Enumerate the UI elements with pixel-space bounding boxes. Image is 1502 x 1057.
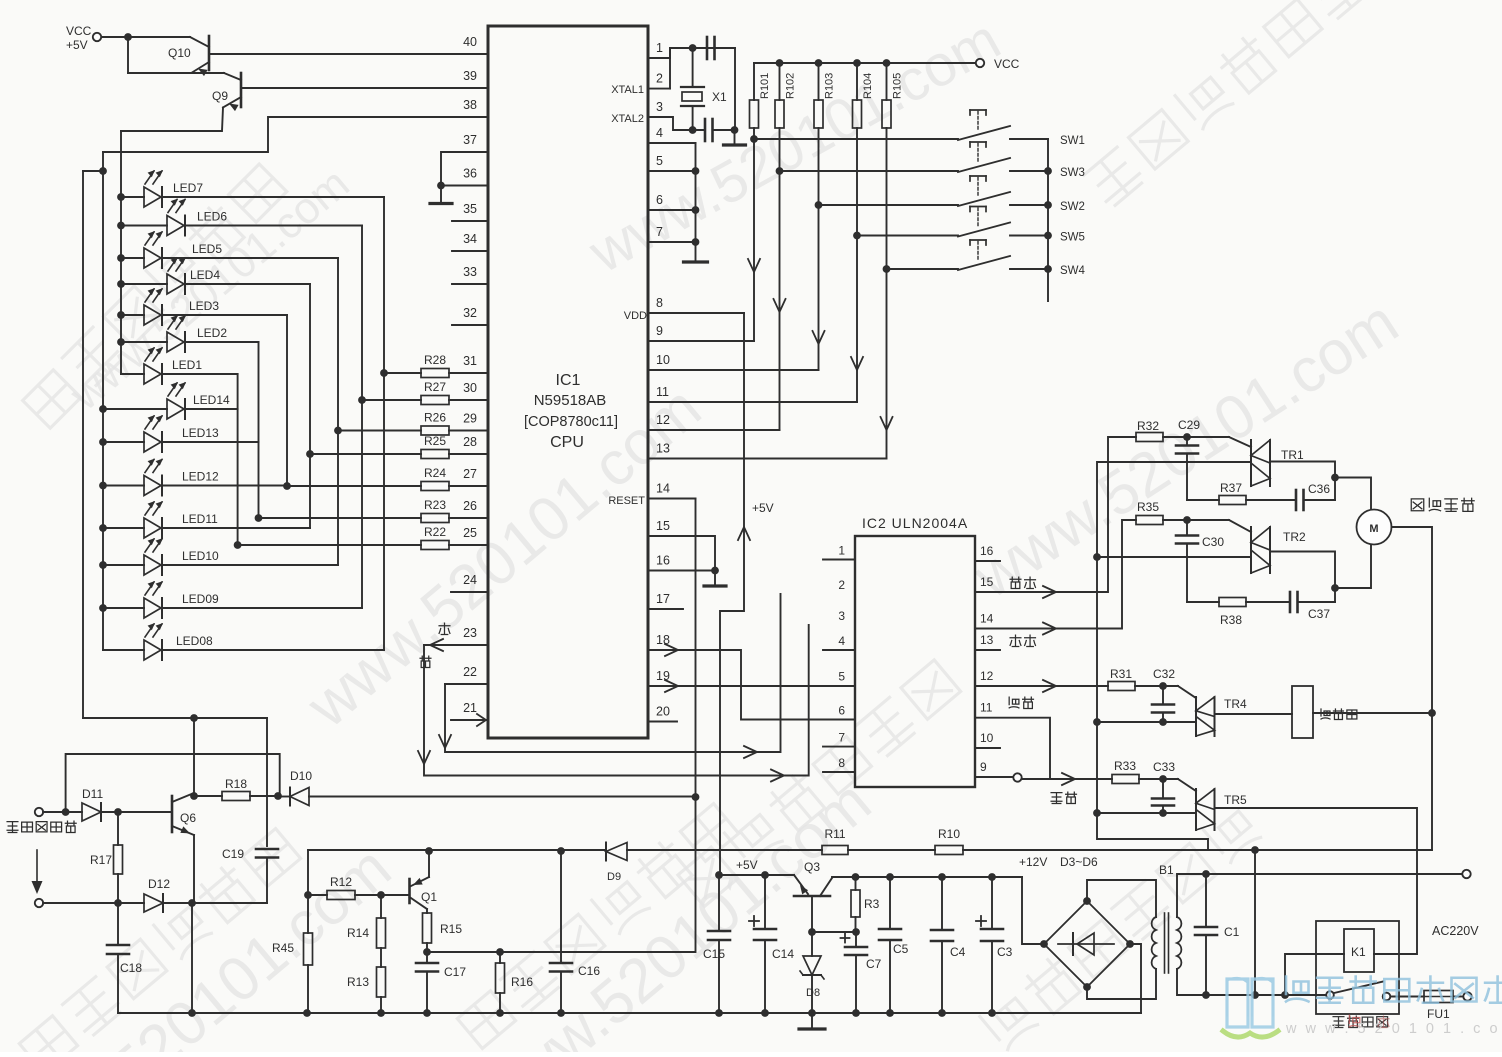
- svg-text:LED14: LED14: [193, 393, 230, 407]
- junction bus TR4 line: [1093, 718, 1101, 726]
- svg-text:C1: C1: [1224, 925, 1240, 939]
- wire SW1 row: [754, 138, 958, 140]
- svg-text:12: 12: [980, 669, 994, 683]
- junction ground bus x500: [496, 1009, 504, 1017]
- svg-text:38: 38: [463, 98, 477, 112]
- terminal AC top: [1462, 870, 1470, 878]
- junction C32 bottom: [1159, 718, 1167, 726]
- resistor R28: [421, 353, 449, 378]
- resistor R31: [1108, 667, 1135, 691]
- IC2 pin 8 number: [838, 756, 845, 770]
- wire R25 row: [310, 453, 488, 455]
- svg-text:Q9: Q9: [212, 89, 228, 103]
- junction crystal bottom: [689, 126, 697, 134]
- wire LED3 row: [121, 314, 287, 316]
- svg-text:24: 24: [463, 573, 477, 587]
- diode D10: [278, 769, 312, 806]
- wire LED10 row: [103, 564, 338, 566]
- capacitor C15: [703, 875, 730, 1013]
- label 反 reverse: [420, 656, 431, 667]
- pin name XTAL2: [611, 113, 644, 125]
- wire R22 row: [238, 544, 488, 546]
- label 电源 power: [1051, 792, 1076, 803]
- pin 24 number: [463, 573, 477, 587]
- junction D11 left: [62, 808, 70, 816]
- junction R16 top: [496, 948, 504, 956]
- svg-text:22: 22: [463, 665, 477, 679]
- triac TR5: [1178, 779, 1247, 830]
- wire Q6 emitter to ground bus: [191, 903, 193, 1013]
- resistor R13: [347, 967, 386, 1013]
- junction switch bus SW4: [1044, 265, 1052, 273]
- wire R23 row: [259, 517, 489, 519]
- svg-text:LED08: LED08: [176, 634, 213, 648]
- wire LED13 row: [103, 441, 259, 443]
- pin 33 number: [463, 265, 477, 279]
- label D3~D6: [1060, 855, 1098, 869]
- svg-text:TR2: TR2: [1283, 530, 1306, 544]
- svg-text:3: 3: [838, 609, 845, 623]
- IC2 pin 3 number: [838, 609, 845, 623]
- pin 11 number: [656, 385, 669, 399]
- svg-text:C14: C14: [772, 947, 794, 961]
- pin 23 number: [463, 626, 477, 640]
- svg-text:4: 4: [838, 634, 845, 648]
- svg-text:Q3: Q3: [804, 860, 820, 874]
- svg-text:R45: R45: [272, 941, 294, 955]
- junction ground bus x992: [988, 1009, 996, 1017]
- svg-text:29: 29: [463, 412, 477, 426]
- junction C1 bottom: [1202, 991, 1210, 999]
- wire motor to right drop: [1392, 527, 1433, 713]
- pin 24 stub wire: [451, 591, 488, 593]
- wire fuse to terminal: [1453, 996, 1463, 998]
- junction rail Q1: [425, 847, 433, 855]
- pin 30 number: [463, 381, 477, 395]
- junction VCC node: [124, 33, 132, 41]
- IC2 pin 16 stub: [975, 560, 1000, 562]
- wire VCC node down to emitter rail: [127, 37, 129, 73]
- wire LED4 row: [121, 283, 310, 285]
- wire pin 14 RESET net: [648, 499, 696, 798]
- svg-text:C3: C3: [997, 945, 1013, 959]
- diode D9: [606, 843, 627, 884]
- label 电源开关: [1333, 1016, 1388, 1027]
- pin 32 stub wire: [452, 324, 488, 326]
- wire R33 to C33 node: [1139, 778, 1178, 780]
- svg-text:M: M: [1369, 523, 1378, 535]
- svg-text:3: 3: [656, 100, 663, 114]
- svg-text:LED7: LED7: [173, 181, 203, 195]
- wire LED3/LED12 cathode vertical: [286, 315, 288, 486]
- junction base node: [808, 928, 816, 936]
- wire Q6 emitter down: [193, 835, 195, 903]
- junction bus TR5 line: [1093, 809, 1101, 817]
- junction valve right node: [1428, 709, 1436, 717]
- terminal VCC: [93, 33, 101, 41]
- svg-text:R16: R16: [511, 975, 533, 989]
- svg-text:11: 11: [656, 385, 669, 399]
- red stamp accents: [1349, 1015, 1389, 1027]
- svg-text:R103: R103: [824, 73, 836, 99]
- pin 21 number: [463, 701, 477, 715]
- junction ground bus x765: [761, 1009, 769, 1017]
- wire TR4 to inlet valve: [1215, 713, 1293, 715]
- svg-text:C36: C36: [1308, 482, 1330, 496]
- wire bridge right to ground bus: [1130, 944, 1141, 1013]
- svg-text:R28: R28: [424, 353, 446, 367]
- resistor R102: [775, 63, 797, 171]
- IC2 pin 15 number: [980, 575, 994, 589]
- wire bridge AC bottom to transformer: [1087, 969, 1156, 999]
- svg-text:FU1: FU1: [1427, 1007, 1450, 1021]
- junction R23 net: [255, 514, 263, 522]
- capacitor C16: [550, 851, 600, 1013]
- transistor Q6: [172, 793, 196, 837]
- svg-text:D3~D6: D3~D6: [1060, 855, 1098, 869]
- svg-text:16: 16: [980, 544, 994, 558]
- capacitor C3 electrolytic: [976, 877, 1013, 1013]
- wire rail drop to AC line: [1254, 850, 1256, 995]
- resistor R101: [750, 63, 772, 139]
- svg-text:36: 36: [463, 167, 477, 181]
- svg-text:SW3: SW3: [1060, 167, 1085, 179]
- watermark grey CJK bottom-center: [455, 800, 741, 1050]
- svg-text:23: 23: [463, 626, 477, 640]
- svg-text:R35: R35: [1137, 500, 1159, 514]
- wire pin 16: [648, 570, 715, 572]
- svg-text:34: 34: [463, 232, 477, 246]
- IC2 pin 12 number: [980, 669, 994, 683]
- wire +5V rail: [719, 874, 794, 876]
- IC1 label: [524, 372, 618, 451]
- watermark grey CJK top-right: [1083, 0, 1369, 208]
- svg-text:R15: R15: [440, 922, 462, 936]
- svg-text:32: 32: [463, 306, 477, 320]
- ground crystal: [724, 130, 746, 145]
- svg-text:26: 26: [463, 499, 477, 513]
- svg-text:R32: R32: [1137, 419, 1159, 433]
- pin 1 number: [656, 41, 663, 55]
- svg-text:R24: R24: [424, 466, 446, 480]
- pin 36 number: [463, 167, 477, 181]
- transistor Q1: [381, 851, 437, 909]
- capacitor C32: [1152, 667, 1175, 722]
- wire emitter rail: [128, 73, 241, 80]
- switch SW1: [958, 110, 1048, 140]
- junction +5V C14: [761, 871, 769, 879]
- pin 39 number: [463, 69, 477, 83]
- label SW5: [1060, 232, 1085, 244]
- capacitor C36: [1246, 482, 1335, 510]
- switch SW3: [958, 142, 1048, 172]
- LED LED7: [144, 170, 203, 207]
- svg-text:LED10: LED10: [182, 549, 219, 563]
- junction anode bus LED13: [99, 438, 107, 446]
- wire TR5 to relay K1: [1215, 808, 1418, 954]
- LED LED3: [144, 288, 219, 325]
- LED LED13: [144, 415, 219, 452]
- crystal X1: [681, 48, 727, 130]
- wire switch to fuse: [1391, 996, 1425, 998]
- svg-text:IC2 ULN2004A: IC2 ULN2004A: [862, 515, 968, 531]
- wire LED12 row: [103, 485, 287, 487]
- svg-text:14: 14: [656, 482, 670, 496]
- label AC220V: [1432, 924, 1479, 938]
- bridge rectifier D3-D6: [1044, 901, 1130, 987]
- svg-text:14: 14: [980, 612, 994, 626]
- junction bridge left: [1040, 940, 1048, 948]
- svg-text:D12: D12: [148, 877, 170, 891]
- wire motor top: [1335, 478, 1371, 511]
- wire R28 row: [384, 372, 488, 374]
- junction Q6 collector R18: [190, 792, 198, 800]
- resistor R14: [347, 895, 386, 967]
- pin 18 number: [656, 633, 670, 647]
- watermark grey CJK bottom-left: [17, 825, 303, 1057]
- svg-text:LED4: LED4: [190, 268, 220, 282]
- IC2 pin 7 stub: [823, 746, 855, 748]
- capacitor C18: [107, 903, 142, 1013]
- wire TR2 MT2 to motor bottom node: [1270, 552, 1335, 589]
- label SW4: [1060, 265, 1086, 277]
- junction anode bus LED5: [117, 254, 125, 262]
- wire RESET net down to R15 line: [427, 797, 696, 952]
- pin 16 number: [656, 554, 670, 568]
- pin 27 number: [463, 467, 477, 481]
- LED LED1: [144, 347, 202, 384]
- junction R17 top: [114, 808, 122, 816]
- capacitor C37: [1246, 592, 1335, 621]
- junction anode bus LED2: [117, 338, 125, 346]
- junction anode bus LED10: [99, 561, 107, 569]
- svg-text:25: 25: [463, 526, 477, 540]
- wire LED2/LED13 cathode vertical: [258, 342, 260, 518]
- wire pin 37 to pin 36: [441, 152, 488, 186]
- svg-text:39: 39: [463, 69, 477, 83]
- capacitor C5: [879, 877, 909, 1013]
- wire TR1 MT2 to motor node: [1270, 462, 1335, 478]
- svg-text:AC220V: AC220V: [1432, 924, 1479, 938]
- LED LED14: [167, 382, 230, 419]
- svg-text:R25: R25: [424, 434, 446, 448]
- wire secondary bottom line: [1177, 969, 1326, 995]
- pin 22 number: [463, 665, 477, 679]
- svg-text:D9: D9: [607, 871, 621, 883]
- capacitor C17: [416, 952, 466, 1013]
- watermark grey www bottom-left: [0, 833, 404, 1057]
- resistor R27: [421, 380, 449, 405]
- pin 4 number: [656, 126, 663, 140]
- capacitor C30: [1176, 520, 1224, 602]
- junction ground bus x192: [188, 1009, 196, 1017]
- junction ground bus x381: [377, 1009, 385, 1017]
- junction AC line drop: [1251, 991, 1259, 999]
- watermark grey www top-center: [578, 7, 1011, 286]
- diode D11: [82, 787, 103, 821]
- svg-text:12: 12: [656, 413, 670, 427]
- svg-text:R3: R3: [864, 897, 880, 911]
- LED LED09: [144, 581, 219, 618]
- junction VCC bus R103: [815, 59, 823, 67]
- resistor R33: [1112, 759, 1139, 784]
- pin 29 number: [463, 412, 477, 426]
- wire LED11 row: [103, 527, 310, 529]
- capacitor C14 electrolytic: [749, 875, 794, 1013]
- junction crystal ground node: [731, 126, 739, 134]
- wire secondary top rail: [1177, 874, 1462, 917]
- junction switch bus SW3: [1044, 167, 1052, 175]
- resistor R37: [1187, 481, 1246, 505]
- svg-text:R101: R101: [759, 73, 771, 99]
- wire pin 3 XTAL2 to crystal bottom: [648, 117, 705, 130]
- wire R32 to C29 node: [1163, 436, 1229, 438]
- wire inlet valve to right drop: [1313, 712, 1432, 714]
- svg-text:1: 1: [838, 544, 845, 558]
- wire K1 coil left: [1285, 954, 1344, 995]
- svg-text:R38: R38: [1220, 613, 1242, 627]
- LED LED5: [144, 231, 222, 268]
- pin 38 number: [463, 98, 477, 112]
- junction VCC bus R104: [853, 59, 861, 67]
- junction C30 node: [1183, 516, 1191, 524]
- wire LED7/LED08 cathode vertical: [383, 197, 385, 650]
- transistor Q10: [168, 36, 209, 76]
- svg-text:R105: R105: [892, 73, 904, 99]
- svg-text:VDD: VDD: [624, 310, 647, 322]
- resistor R3: [851, 877, 880, 932]
- IC2 pin 6 number: [838, 704, 845, 718]
- wire IC2 pin 9 stub to terminal: [975, 776, 1013, 778]
- zener D8: [800, 932, 824, 1013]
- svg-text:B1: B1: [1159, 863, 1174, 877]
- svg-text:9: 9: [656, 324, 663, 338]
- svg-text:7: 7: [656, 225, 663, 239]
- resistor R18: [194, 777, 278, 801]
- IC2 pin 10 number: [980, 731, 994, 745]
- svg-text:C29: C29: [1178, 418, 1200, 432]
- wire motor bottom: [1335, 545, 1371, 588]
- wire Q9 collector to pin 39: [241, 87, 488, 89]
- wire cap2 to ground node: [713, 129, 736, 131]
- svg-text:R14: R14: [347, 926, 369, 940]
- junction rail C4: [938, 873, 946, 881]
- resistor R22: [421, 525, 449, 550]
- svg-text:LED2: LED2: [197, 326, 227, 340]
- svg-text:37: 37: [463, 133, 477, 147]
- svg-text:5: 5: [838, 670, 845, 684]
- junction ground bus x942: [938, 1009, 946, 1017]
- watermark grey www mid-right: [961, 287, 1410, 612]
- pin 3 number: [656, 100, 663, 114]
- IC2 pin 10 stub: [975, 747, 1000, 749]
- IC2 pin 1 number: [838, 544, 845, 558]
- wire pin 19 to IC2 pin 5: [648, 680, 855, 692]
- svg-text:R13: R13: [347, 975, 369, 989]
- svg-text:16: 16: [656, 554, 670, 568]
- junction anode bus LED7: [117, 193, 125, 201]
- junction anode bus LED12: [99, 482, 107, 490]
- triac TR1: [1229, 437, 1304, 486]
- svg-text:8: 8: [656, 296, 663, 310]
- pin 20 number: [656, 705, 670, 719]
- pin 10 number: [656, 353, 670, 367]
- capacitor C4: [931, 877, 966, 1013]
- svg-text:20: 20: [656, 705, 670, 719]
- IC2 pin 4 stub: [823, 649, 855, 651]
- wire pin 15 to pin 16 node: [648, 536, 715, 571]
- svg-text:35: 35: [463, 202, 477, 216]
- junction VCC bus R102: [776, 59, 784, 67]
- svg-text:10: 10: [656, 353, 670, 367]
- triac TR4: [1178, 686, 1247, 736]
- diode D12: [144, 877, 170, 912]
- pin 32 number: [463, 306, 477, 320]
- terminal AC bottom: [1463, 992, 1471, 1000]
- IC2 pin 13 number: [980, 633, 994, 647]
- wire switch common bus: [1047, 139, 1049, 301]
- junction SW3 left: [776, 167, 784, 175]
- resistor R35: [1136, 500, 1163, 525]
- wire R103 net to pin 10: [648, 205, 825, 370]
- junction motor top node: [1331, 474, 1339, 482]
- wire LED anode bus A: [120, 131, 122, 374]
- svg-text:[COP8780c11]: [COP8780c11]: [524, 414, 618, 430]
- terminal water level lower: [35, 899, 43, 907]
- svg-text:28: 28: [463, 435, 477, 449]
- junction R18 D10 node: [274, 792, 282, 800]
- svg-text:LED6: LED6: [197, 210, 227, 224]
- wire R35 to C30 node: [1163, 519, 1229, 521]
- pin 2 number: [656, 72, 663, 86]
- wire LED6 row: [121, 225, 362, 227]
- wire SW5 row: [857, 235, 958, 237]
- resistor R104: [853, 63, 875, 236]
- svg-text:C19: C19: [222, 847, 244, 861]
- label SW3: [1060, 167, 1085, 179]
- ground pin16: [704, 571, 726, 587]
- wire +12V rail: [832, 877, 1044, 944]
- svg-text:8: 8: [838, 756, 845, 770]
- junction anode bus LED14: [99, 405, 107, 413]
- junction SW5 left: [853, 232, 861, 240]
- IC2 pin 13 stub: [975, 649, 1000, 651]
- svg-text:VCC: VCC: [994, 57, 1020, 71]
- label +5V rail: [736, 858, 758, 872]
- svg-text:SW1: SW1: [1060, 135, 1085, 147]
- resistor R32: [1136, 419, 1163, 442]
- resistor R45: [272, 933, 313, 1013]
- wire C37 to motor bottom node: [1334, 588, 1336, 602]
- svg-text:Q6: Q6: [180, 811, 196, 825]
- ground pins 4-7: [684, 260, 708, 263]
- IC2 pin 14 number: [980, 612, 994, 626]
- svg-text:SW4: SW4: [1060, 265, 1086, 277]
- svg-text:LED13: LED13: [182, 426, 219, 440]
- pin 12 number: [656, 413, 670, 427]
- svg-text:LED3: LED3: [189, 299, 219, 313]
- svg-text:TR1: TR1: [1281, 448, 1304, 462]
- label 正 forward: [439, 623, 450, 634]
- svg-text:C18: C18: [120, 961, 142, 975]
- svg-text:CPU: CPU: [550, 434, 584, 451]
- junction anode bus LED3: [117, 311, 125, 319]
- svg-text:40: 40: [463, 35, 477, 49]
- svg-text:+5V: +5V: [736, 858, 758, 872]
- svg-text:R104: R104: [862, 73, 874, 99]
- junction ground bus x561: [557, 1009, 565, 1017]
- IC2 pin 8 stub: [823, 771, 855, 773]
